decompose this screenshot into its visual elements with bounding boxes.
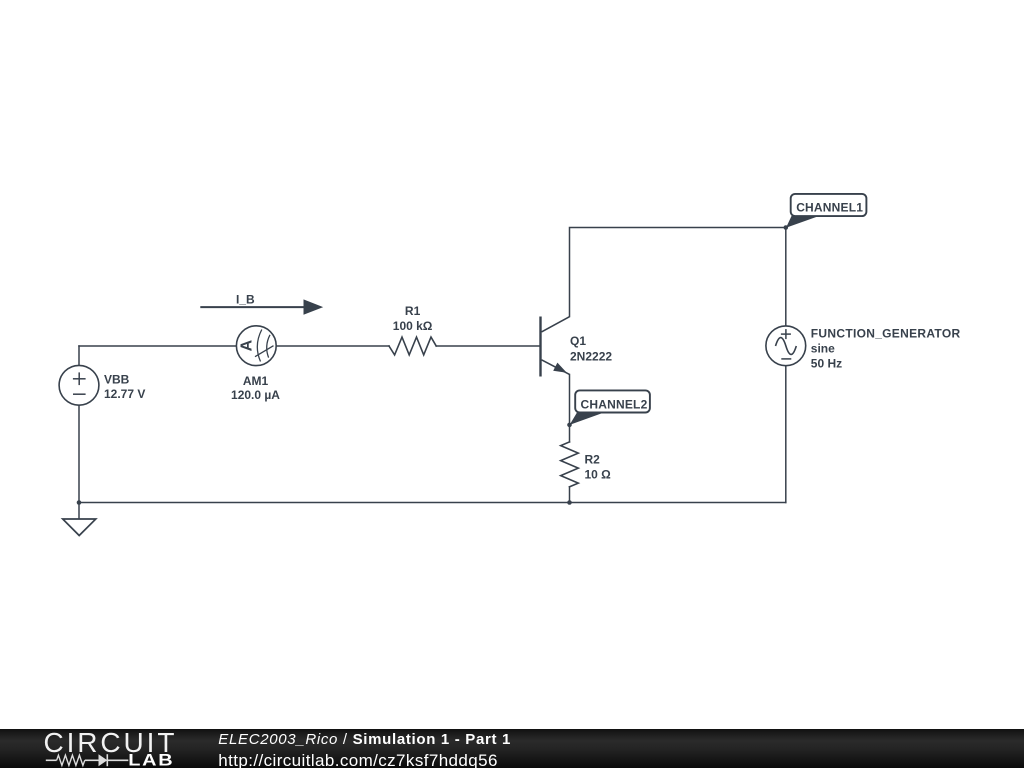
svg-text:50 Hz: 50 Hz: [811, 357, 842, 371]
svg-text:AM1: AM1: [243, 374, 269, 388]
svg-text:LAB: LAB: [128, 751, 174, 768]
svg-text:Q1: Q1: [570, 334, 586, 348]
svg-text:ELEC2003_Rico / Simulation 1 -: ELEC2003_Rico / Simulation 1 - Part 1: [218, 731, 511, 748]
svg-text:120.0 µA: 120.0 µA: [231, 388, 280, 402]
svg-text:10 Ω: 10 Ω: [585, 467, 612, 481]
svg-text:A: A: [238, 339, 255, 351]
svg-text:CHANNEL1: CHANNEL1: [796, 200, 863, 214]
svg-text:VBB: VBB: [104, 372, 130, 386]
svg-text:sine: sine: [811, 341, 835, 355]
svg-text:2N2222: 2N2222: [570, 349, 612, 363]
svg-text:FUNCTION_GENERATOR: FUNCTION_GENERATOR: [811, 326, 961, 340]
svg-text:R1: R1: [405, 304, 421, 318]
svg-text:R2: R2: [585, 453, 601, 467]
svg-text:I_B: I_B: [236, 293, 255, 307]
svg-text:CHANNEL2: CHANNEL2: [581, 397, 648, 411]
svg-text:http://circuitlab.com/cz7ksf7h: http://circuitlab.com/cz7ksf7hddq56: [218, 751, 498, 768]
svg-text:100 kΩ: 100 kΩ: [393, 319, 433, 333]
svg-text:12.77 V: 12.77 V: [104, 387, 145, 401]
